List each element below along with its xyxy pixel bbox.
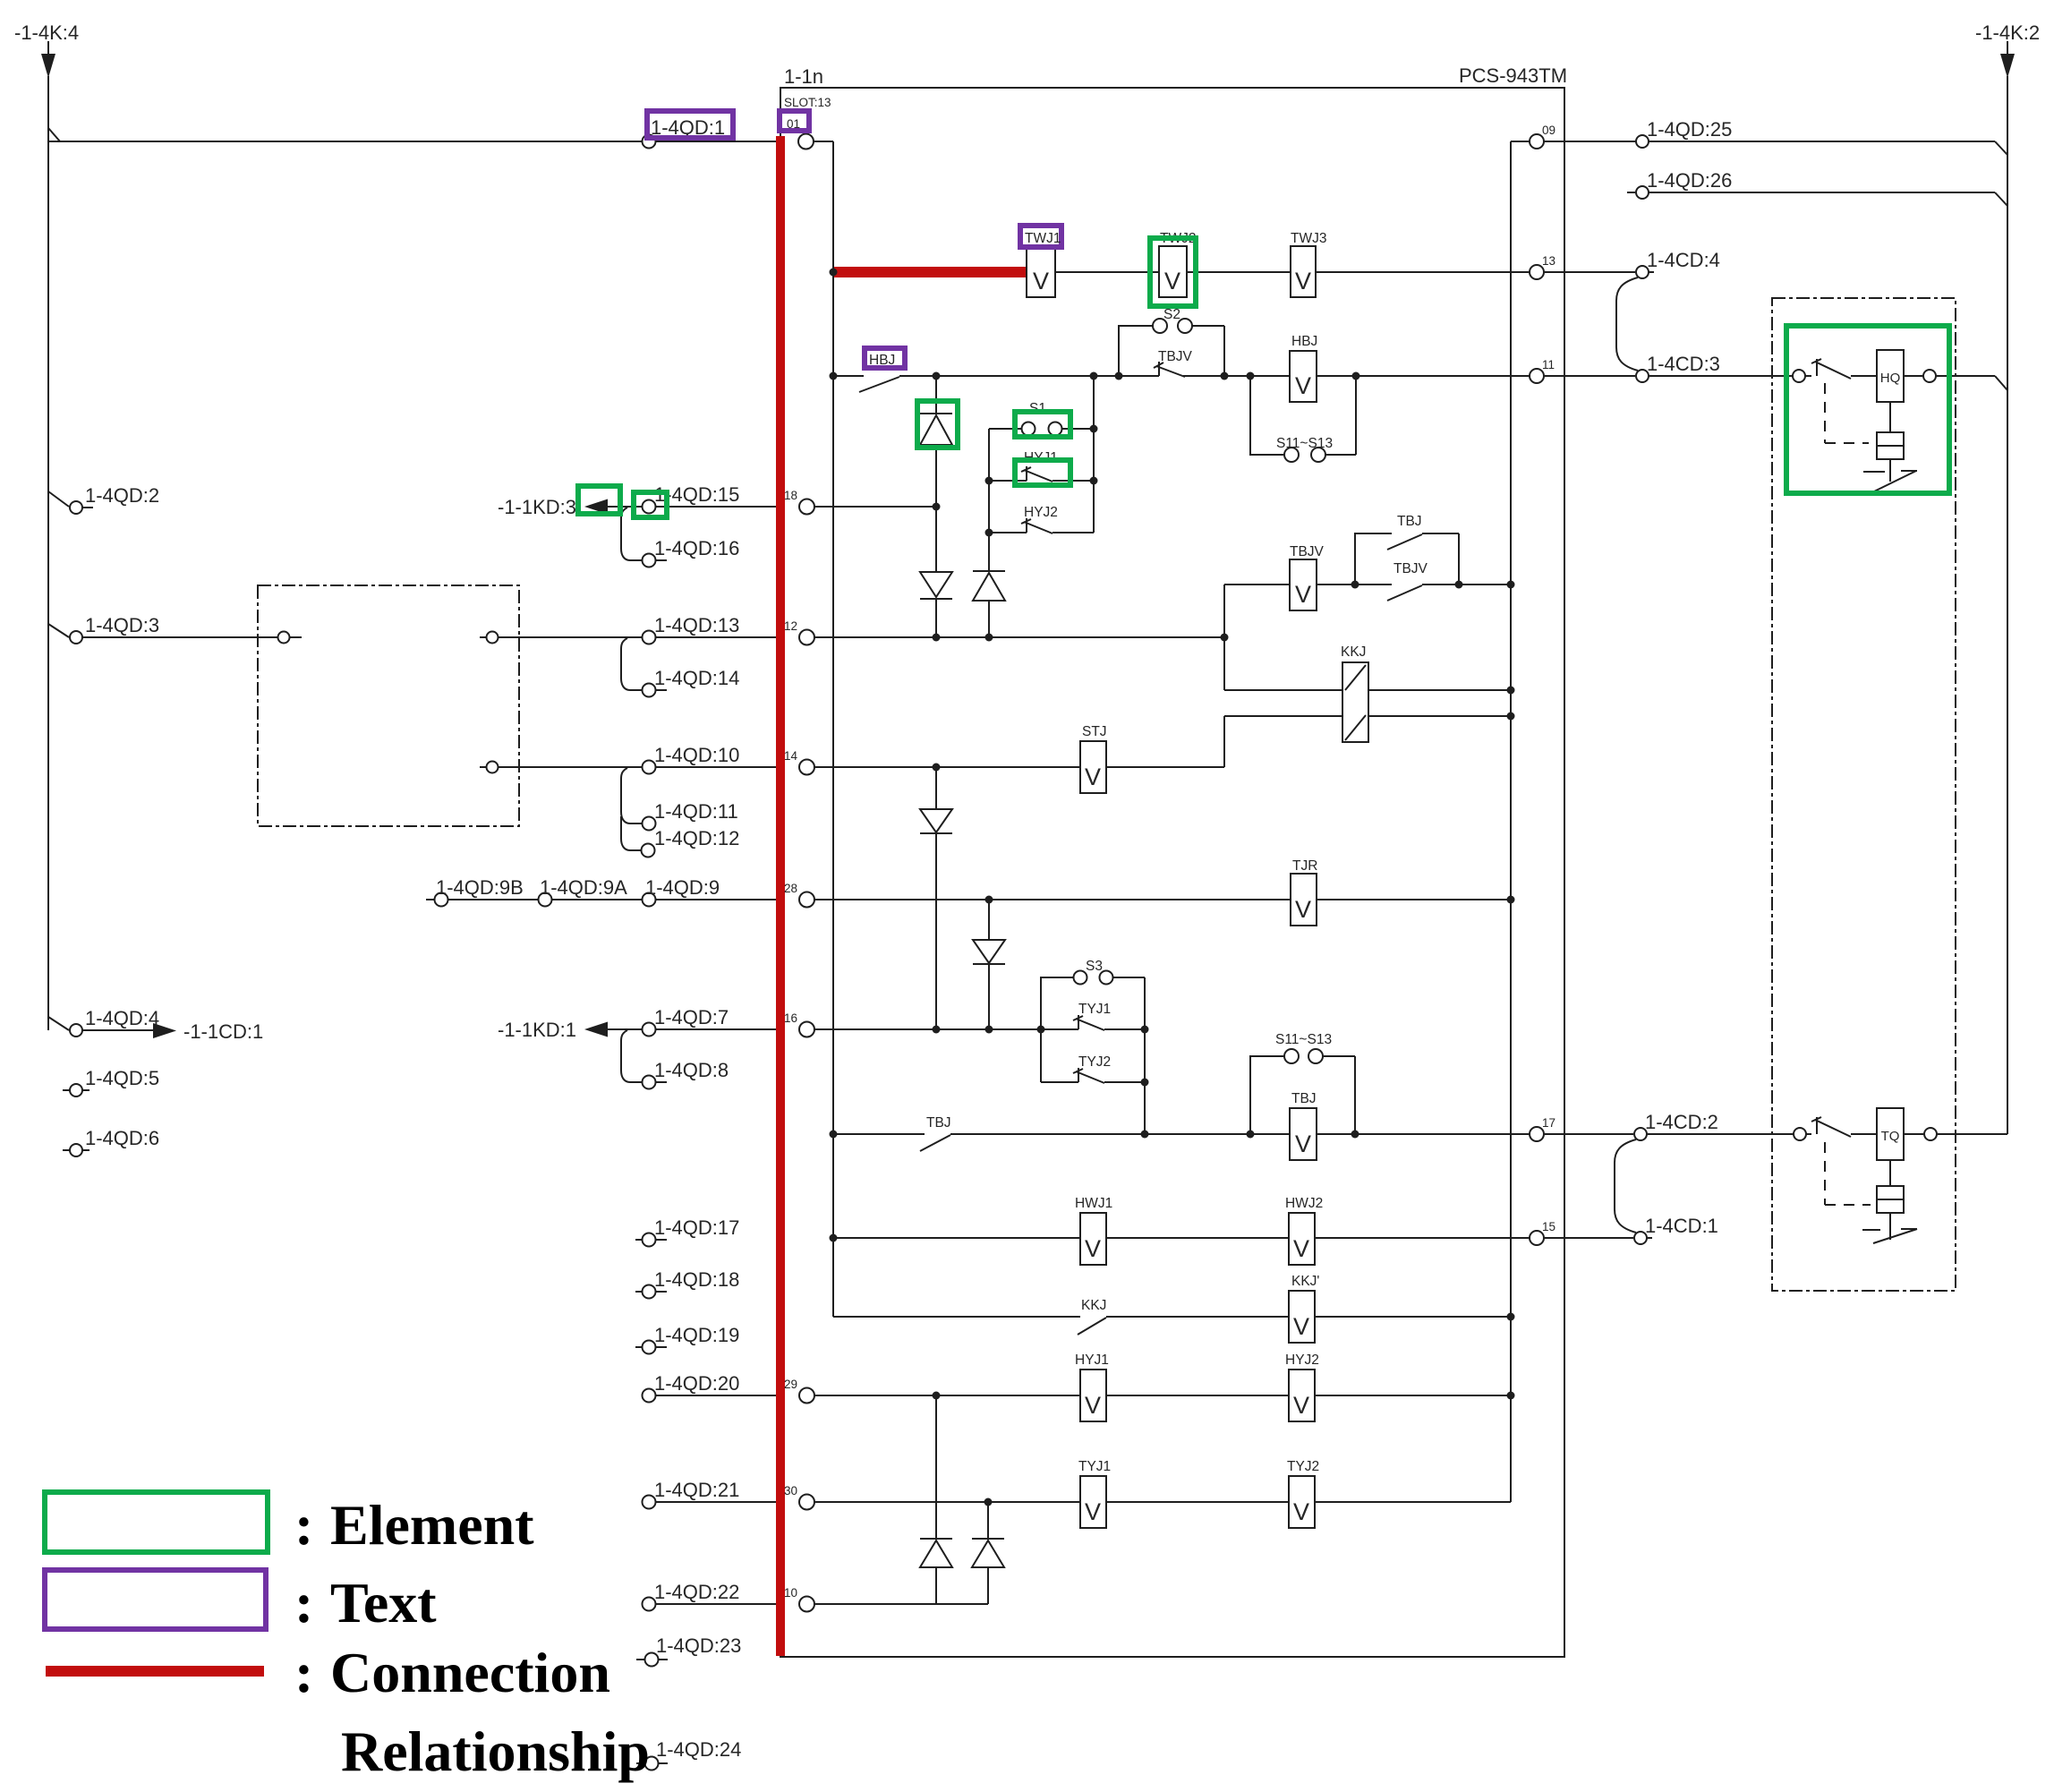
svg-text:1-4QD:23: 1-4QD:23: [656, 1634, 741, 1657]
tap 1-4QD:4: [48, 1017, 153, 1030]
wire: 1-4CD:3 to HQ circuit: [1649, 375, 1793, 377]
svg-text:V: V: [1295, 581, 1311, 608]
svg-text:PCS-943TM: PCS-943TM: [1459, 64, 1567, 87]
wire: 1-4QD:10 to module pin 14: [656, 766, 799, 768]
svg-text:16: 16: [784, 1011, 797, 1025]
terminal 1-4QD:7: [643, 1023, 656, 1037]
svg-text:12: 12: [784, 619, 797, 633]
contact TBJV (NC) on HBJ row: [1154, 362, 1185, 377]
svg-text:30: 30: [784, 1484, 797, 1498]
module pin 13: [1530, 265, 1544, 279]
cable box terminal left: [278, 632, 290, 644]
junction HBJ row x1046: [933, 372, 941, 380]
junction x1105 / 12 row: [985, 634, 993, 642]
module pin 28: [799, 892, 814, 908]
svg-text:-1-1KD:3: -1-1KD:3: [498, 496, 576, 518]
relay coil TYJ2: [1289, 1476, 1315, 1528]
branch wire to 1-4QD:14: [621, 638, 642, 690]
wire: TWJ3 to pin 13: [1316, 271, 1530, 273]
svg-text:1-4CD:3: 1-4CD:3: [1647, 353, 1720, 375]
contact TBJ: [920, 1135, 950, 1151]
spare terminal 1-4QD:19: [635, 1346, 667, 1348]
svg-text:13: 13: [1542, 254, 1555, 268]
annotation purple box: text 1-4QD:1: [647, 111, 733, 138]
relay coil HYJ1: [1080, 1370, 1106, 1421]
TQ lower linkage square: [1889, 1160, 1891, 1186]
svg-text:TWJ1: TWJ1: [1025, 231, 1061, 246]
contact TYJ1 (NC): [1073, 1015, 1145, 1030]
svg-text:V: V: [1295, 372, 1311, 399]
terminal 1-4QD:15: [643, 500, 656, 514]
junction internal bus / red line: [830, 269, 838, 277]
annotation green box: element S1: [1015, 412, 1070, 437]
wire: HWJ row: [833, 1237, 1080, 1239]
svg-text:18: 18: [784, 489, 797, 502]
junction x1046 / HYJ row: [933, 1392, 941, 1400]
svg-text:1-4QD:8: 1-4QD:8: [654, 1059, 729, 1081]
svg-text:S11~S13: S11~S13: [1275, 1032, 1332, 1047]
module pin 15: [1530, 1231, 1544, 1245]
module pin 01: [798, 134, 814, 149]
power feed arrow -1-4K:2: [2007, 41, 2008, 55]
breaker aux contact (TQ path): [1806, 1117, 1851, 1137]
svg-text:KKJ': KKJ': [1291, 1274, 1319, 1289]
wire: TBJ row from bus: [833, 1133, 925, 1135]
module pin 12: [799, 630, 814, 645]
svg-text:Text: Text: [330, 1571, 437, 1634]
junction x1163 / 16 row: [1037, 1026, 1045, 1034]
diode D1 (boxed) on x1046: [935, 376, 937, 637]
wire: KKJ bottom row: [1224, 715, 1511, 717]
svg-text:V: V: [1085, 1498, 1101, 1525]
legend red line: [46, 1666, 264, 1677]
svg-text:1-4QD:11: 1-4QD:11: [654, 800, 738, 823]
wire: 1-4QD:21 to module pin 30: [656, 1501, 799, 1503]
terminal 1-4QD:9B: [435, 893, 448, 907]
svg-text:1-4QD:10: 1-4QD:10: [654, 744, 739, 766]
switch S11~S13 (lower) branch: [1250, 1056, 1355, 1134]
wire: 1-4QD:7 to module pin 16: [656, 1028, 799, 1030]
TQ circuit terminal right: [1924, 1128, 1937, 1140]
terminal 1-4QD:11: [643, 817, 656, 831]
TQ trip circuit terminal left: [1794, 1128, 1806, 1140]
outgoing arrow to -1-1CD:1: [153, 1023, 176, 1038]
svg-text:1-4QD:6: 1-4QD:6: [85, 1127, 159, 1149]
annotation green box: element arrow KD:3: [578, 486, 620, 514]
branch wire to 1-4QD:8: [621, 1030, 642, 1082]
terminal 1-4QD:25: [1636, 135, 1649, 148]
HQ circuit terminal right: [1923, 370, 1936, 382]
wire: bus entry jog top-left: [48, 128, 60, 141]
svg-text:11: 11: [1542, 358, 1555, 371]
svg-text:1-4QD:24: 1-4QD:24: [656, 1738, 741, 1761]
legend green box: [45, 1492, 268, 1552]
wire: pin15 to 1-4CD:1: [1544, 1237, 1633, 1239]
switch S2 branch: [1119, 326, 1224, 376]
svg-text:Element: Element: [330, 1493, 534, 1557]
terminal 1-4QD:14: [643, 684, 656, 697]
contact HBJ: [859, 377, 899, 392]
junction right bus / HYJ row: [1507, 1392, 1515, 1400]
relay coil HWJ1: [1080, 1213, 1106, 1265]
wire: x1368 riser KKJ bottom to STJ row: [1223, 716, 1225, 767]
junction internal bus / HBJ row: [830, 372, 838, 380]
svg-text:V: V: [1085, 1235, 1101, 1262]
svg-text:1-4QD:21: 1-4QD:21: [654, 1479, 739, 1501]
svg-text:1-4CD:4: 1-4CD:4: [1647, 249, 1720, 271]
junction x1104 / TYJ row: [984, 1498, 993, 1506]
relay coil STJ: [1080, 741, 1106, 793]
contact HYJ2 (NC): [989, 518, 1094, 533]
junction x1279 / TYJ2 row: [1141, 1079, 1149, 1087]
svg-text:V: V: [1085, 1392, 1101, 1419]
wire: x1104 down to diode D7: [987, 1502, 989, 1604]
terminal 1-4CD:4: [1636, 266, 1649, 278]
breaker mechanism box (dash-dot): [1772, 298, 1956, 1291]
annotation green box: element diode: [917, 401, 958, 448]
svg-text:Connection: Connection: [330, 1641, 610, 1704]
svg-text:V: V: [1164, 268, 1180, 294]
wire: left DC bus vertical: [47, 76, 49, 1030]
svg-text:14: 14: [784, 749, 798, 763]
junction x1279 / TBJ row: [1141, 1131, 1149, 1139]
switch S3 branch: [1041, 977, 1145, 1029]
diode D6: [920, 1538, 952, 1540]
junction TBJV/TBJ branch left: [1351, 581, 1359, 589]
switch S1 branch: [989, 428, 1021, 430]
wire: x1368 riser TBJV/KKJ: [1223, 585, 1225, 690]
svg-text:1-4QD:26: 1-4QD:26: [1647, 169, 1732, 192]
wire: pin14/STJ row: [814, 766, 1080, 768]
TQ mechanism linkage (dashed): [1825, 1142, 1871, 1205]
svg-text:V: V: [1295, 268, 1311, 294]
terminal 1-4CD:2: [1634, 1128, 1647, 1140]
wire: pin 01 into internal bus: [814, 141, 833, 142]
relay coil HYJ2: [1289, 1370, 1315, 1421]
wire: internal right bus of module: [1510, 141, 1512, 1502]
cable box terminal right lower: [480, 766, 486, 768]
branch wire to 1-4QD:12: [621, 816, 641, 850]
wire: x1046 down to diode D6: [935, 1395, 937, 1604]
cable bracket CD:4-CD:3: [1616, 277, 1638, 371]
wire: x1279 down to TBJ row: [1144, 977, 1146, 1134]
annotation purple box: text TWJ1: [1020, 226, 1061, 247]
wire: bus entry jog 25: [1995, 141, 2007, 155]
svg-text:S2: S2: [1163, 307, 1180, 322]
contact TBJ (branch above): [1355, 533, 1459, 585]
junction internal bus / TBJ row: [830, 1131, 838, 1139]
svg-text:V: V: [1293, 1498, 1309, 1525]
breaker aux contact (HQ path): [1805, 359, 1851, 379]
highlighted connection: red horizontal to TWJ1: [833, 267, 1027, 277]
wire: rail to module: [656, 141, 798, 142]
wire: KKJ' row from internal bus corner: [833, 1316, 1080, 1318]
junction right bus / KKJ bottom: [1507, 713, 1515, 721]
terminal 1-4QD:1: [643, 135, 656, 149]
svg-text:TBJ: TBJ: [926, 1115, 951, 1131]
svg-text:HWJ1: HWJ1: [1075, 1196, 1112, 1211]
spare terminal 1-4QD:23: [636, 1659, 668, 1660]
terminal 1-4QD:26: [1627, 192, 1635, 193]
annotation purple box: text HBJ: [865, 348, 905, 368]
svg-text::: :: [294, 1641, 313, 1704]
wire: pin18 row into module: [814, 506, 933, 508]
annotation purple box: text 01: [780, 111, 809, 131]
wire: right DC bus vertical: [2007, 76, 2008, 1134]
svg-text::: :: [294, 1571, 313, 1634]
junction right bus / TJR row: [1507, 896, 1515, 904]
tap 1-4QD:3: [48, 624, 69, 637]
module pin 30: [799, 1495, 814, 1510]
legend purple box: [45, 1570, 266, 1629]
svg-text:Relationship: Relationship: [341, 1719, 650, 1783]
spare terminal 1-4QD:6: [63, 1149, 89, 1151]
svg-text:TWJ3: TWJ3: [1291, 231, 1326, 246]
svg-text:TJR: TJR: [1292, 858, 1317, 874]
svg-text:KKJ: KKJ: [1341, 644, 1366, 660]
module pin 29: [799, 1388, 814, 1404]
wire: box to 1-4QD:10: [499, 766, 643, 768]
svg-text:1-4QD:13: 1-4QD:13: [654, 614, 739, 636]
cable box terminal right upper: [480, 636, 486, 638]
junction TBJ branch right: [1455, 581, 1463, 589]
junction HBJ row x1222: [1090, 372, 1098, 380]
wire: pin11 to 1-4CD:3: [1544, 375, 1635, 377]
wire: TWJ1-TWJ2: [1055, 271, 1159, 273]
module pin 18: [799, 499, 814, 515]
svg-text:1-4QD:4: 1-4QD:4: [85, 1007, 159, 1029]
wire: pin12 row: [814, 636, 1221, 638]
module pin 11: [1530, 369, 1544, 383]
wire: vertical x1222: [1093, 376, 1095, 533]
svg-text:1-4QD:16: 1-4QD:16: [654, 537, 739, 559]
svg-text:S3: S3: [1086, 959, 1103, 974]
HQ closing circuit terminal left: [1793, 370, 1805, 382]
diode D2 on x1046 down: [920, 572, 952, 597]
highlighted connection: red vertical overlay on module left edge: [776, 136, 785, 1656]
svg-text:HYJ2: HYJ2: [1024, 505, 1058, 520]
wire: bus entry jog 26: [1995, 192, 2007, 206]
module pin 09: [1511, 141, 1530, 142]
contact TYJ2 (NC): [1041, 1068, 1145, 1083]
svg-text:09: 09: [1542, 124, 1555, 137]
junction S11 lower right: [1351, 1131, 1359, 1139]
wire: 1-4QD:22 to module pin 10: [656, 1603, 799, 1605]
terminal 1-4CD:1: [1634, 1232, 1647, 1244]
svg-text:-1-4K:2: -1-4K:2: [1975, 21, 2040, 44]
power feed arrow -1-4K:4: [47, 41, 49, 55]
svg-text:1-4QD:25: 1-4QD:25: [1647, 118, 1732, 141]
svg-text:1-4CD:2: 1-4CD:2: [1645, 1111, 1718, 1133]
junction x1105 / TJR row: [985, 896, 993, 904]
wire 1-4QD:3 to cable box: [82, 636, 278, 638]
junction x1046 / 12 row: [933, 634, 941, 642]
wire: 1-4QD:9 row: [426, 899, 799, 900]
HQ mechanism linkage (dashed): [1825, 383, 1869, 443]
wire: x1163 down to TYJ2: [1040, 1029, 1042, 1082]
relay coil TWJ3: [1291, 246, 1316, 297]
svg-text:HWJ2: HWJ2: [1285, 1196, 1323, 1211]
wire: pin10 row: [814, 1603, 988, 1605]
svg-text:1-4QD:5: 1-4QD:5: [85, 1067, 159, 1089]
svg-text:1-4QD:18: 1-4QD:18: [654, 1268, 739, 1291]
diode D3 on x1105: [973, 570, 1005, 572]
svg-text:1-4QD:19: 1-4QD:19: [654, 1324, 739, 1346]
terminal 1-4QD:16: [643, 554, 656, 567]
svg-text:-1-4K:4: -1-4K:4: [14, 21, 79, 44]
svg-text:V: V: [1085, 764, 1101, 790]
svg-text:STJ: STJ: [1082, 724, 1107, 739]
svg-text::: :: [294, 1493, 313, 1557]
relay coil TJR: [1291, 874, 1317, 926]
svg-text:S11~S13: S11~S13: [1276, 436, 1333, 451]
svg-text:TYJ2: TYJ2: [1078, 1054, 1111, 1070]
relay coil HBJ: [1290, 351, 1317, 402]
svg-text:28: 28: [784, 882, 797, 895]
svg-text:TYJ1: TYJ1: [1078, 1459, 1111, 1474]
terminal 1-4QD:13: [643, 631, 656, 644]
svg-text:HBJ: HBJ: [1291, 334, 1317, 349]
relay coil TBJV: [1290, 559, 1317, 610]
wire: 1-4QD:15 to module pin 18: [656, 506, 799, 508]
wire: pin30/TYJ row: [814, 1501, 1080, 1503]
terminal 1-4QD:21: [643, 1496, 656, 1509]
svg-text:1-4QD:9A: 1-4QD:9A: [540, 876, 627, 899]
terminal 1-4QD:9A: [539, 893, 552, 907]
junction x1279 / 16 row: [1141, 1026, 1149, 1034]
svg-text:HQ: HQ: [1880, 371, 1901, 386]
wire: 1-4QD:20 to module pin 29: [656, 1395, 799, 1396]
branch wire to 1-4QD:11: [621, 768, 642, 823]
junction HBJ row x1397: [1247, 372, 1255, 380]
relay coil TWJ1: [1027, 246, 1055, 297]
wire: HBJ row from bus: [833, 375, 864, 377]
wire: vertical x1105 S1-HYJ chain: [988, 429, 990, 637]
trip coil TQ: [1877, 1108, 1904, 1160]
spare terminal 1-4QD:17: [635, 1239, 667, 1241]
svg-text:17: 17: [1542, 1116, 1555, 1130]
svg-text:1-4QD:2: 1-4QD:2: [85, 484, 159, 507]
junction HBJ row x1368: [1221, 372, 1229, 380]
terminal 1-4CD:3: [1636, 370, 1649, 382]
wire: pin13 to 1-4CD:4: [1544, 271, 1635, 273]
svg-text:1-4QD:9: 1-4QD:9: [645, 876, 720, 899]
branch wire to 1-4QD:16: [621, 508, 642, 560]
diode D5 on x1105: [988, 900, 990, 1029]
relay coil HWJ2: [1289, 1213, 1315, 1265]
annotation green box: element HQ circuit: [1786, 326, 1949, 493]
junction HBJ row x1515: [1352, 372, 1360, 380]
junction right bus / KKJ' row: [1507, 1313, 1515, 1321]
module pin 10: [799, 1597, 814, 1612]
wire: TWJ2-TWJ3: [1187, 271, 1291, 273]
HQ lower linkage square: [1889, 402, 1891, 432]
svg-text:HYJ2: HYJ2: [1285, 1353, 1319, 1368]
svg-text:1-4QD:14: 1-4QD:14: [654, 667, 739, 689]
svg-text:TBJV: TBJV: [1290, 544, 1325, 559]
tap 1-4QD:2: [48, 491, 93, 508]
svg-text:V: V: [1293, 1392, 1309, 1419]
svg-text:HYJ1: HYJ1: [1075, 1353, 1109, 1368]
svg-text:1-4QD:17: 1-4QD:17: [654, 1216, 739, 1239]
junction 12row x1368: [1221, 634, 1229, 642]
wire: pin09 to 1-4QD:25 rail: [1544, 141, 1636, 142]
svg-text:TBJV: TBJV: [1393, 561, 1428, 576]
switch S11~S13 (upper) branch: [1250, 376, 1356, 455]
terminal 1-4QD:9: [643, 893, 656, 907]
wire: pin16/TYJ1 row: [814, 1028, 1078, 1030]
TQ auxiliary switch: [1889, 1213, 1891, 1240]
junction x1105 / 16 row: [985, 1026, 993, 1034]
svg-text:1-4QD:22: 1-4QD:22: [654, 1581, 739, 1603]
svg-text:V: V: [1293, 1313, 1309, 1340]
closing coil HQ: [1877, 350, 1904, 402]
wire: KKJ top row: [1224, 689, 1511, 691]
wire: box to 1-4QD:13: [499, 636, 643, 638]
terminal 1-4QD:10: [643, 761, 656, 774]
diode D7: [972, 1538, 1004, 1540]
contact TBJV (lower parallel): [1355, 585, 1511, 601]
svg-text:TYJ2: TYJ2: [1287, 1459, 1319, 1474]
svg-text:TBJ: TBJ: [1291, 1091, 1317, 1106]
svg-text:15: 15: [1542, 1220, 1555, 1233]
svg-text:1-4QD:9B: 1-4QD:9B: [436, 876, 524, 899]
spare terminal 1-4QD:18: [635, 1291, 667, 1293]
cable bracket CD:2-CD:1: [1615, 1139, 1636, 1233]
wire: top positive rail y158: [48, 141, 643, 142]
svg-text:-1-1CD:1: -1-1CD:1: [183, 1020, 263, 1043]
module pin 14: [799, 760, 814, 775]
junction S1/right leg: [1090, 425, 1098, 433]
annotation green box: element terminal QD:15: [634, 492, 667, 517]
module pin 16: [799, 1022, 814, 1037]
svg-text:29: 29: [784, 1378, 797, 1391]
svg-text:1-4QD:3: 1-4QD:3: [85, 614, 159, 636]
terminal 1-4QD:12: [642, 844, 655, 858]
junction internal bus / HWJ row: [830, 1234, 838, 1242]
terminal 1-4QD:20: [643, 1389, 656, 1403]
spare terminal 1-4QD:24: [636, 1762, 668, 1764]
junction x1046 / 16 row: [933, 1026, 941, 1034]
wire: 1-4QD:13 to module pin 12: [656, 636, 799, 638]
cable junction box (dash-dot): [258, 585, 519, 826]
wire: bus entry jog CD:3: [1995, 376, 2007, 390]
junction S11 lower left: [1247, 1131, 1255, 1139]
junction right bus / KKJ top: [1507, 687, 1515, 695]
svg-text:V: V: [1295, 1131, 1311, 1157]
svg-text:1-4CD:1: 1-4CD:1: [1645, 1215, 1718, 1237]
svg-text:V: V: [1033, 268, 1049, 294]
junction right bus / TBJV row: [1507, 581, 1515, 589]
junction HBJ row x1250: [1115, 372, 1123, 380]
svg-text:TQ: TQ: [1881, 1129, 1900, 1144]
wire: pin29/HYJ row: [814, 1395, 1080, 1396]
module 1-1n PCS-943TM outline: [780, 88, 1564, 1657]
svg-text:-1-1KD:1: -1-1KD:1: [498, 1019, 576, 1041]
svg-text:V: V: [1295, 896, 1311, 923]
annotation green box: element HYJ1: [1015, 460, 1070, 485]
svg-text:SLOT:13: SLOT:13: [784, 96, 831, 109]
svg-text:TBJ: TBJ: [1397, 514, 1422, 529]
contact KKJ: [1078, 1318, 1106, 1335]
wire: pin28/TJR row: [814, 899, 1291, 900]
junction x1046 / STJ row: [933, 764, 941, 772]
wire: pin17 to 1-4CD:2: [1544, 1133, 1633, 1135]
relay coil TWJ2: [1159, 246, 1187, 297]
contact HYJ1 (NC): [989, 466, 1094, 482]
wire: TBJV coil row: [1224, 584, 1290, 585]
relay coil TBJ: [1290, 1108, 1317, 1160]
